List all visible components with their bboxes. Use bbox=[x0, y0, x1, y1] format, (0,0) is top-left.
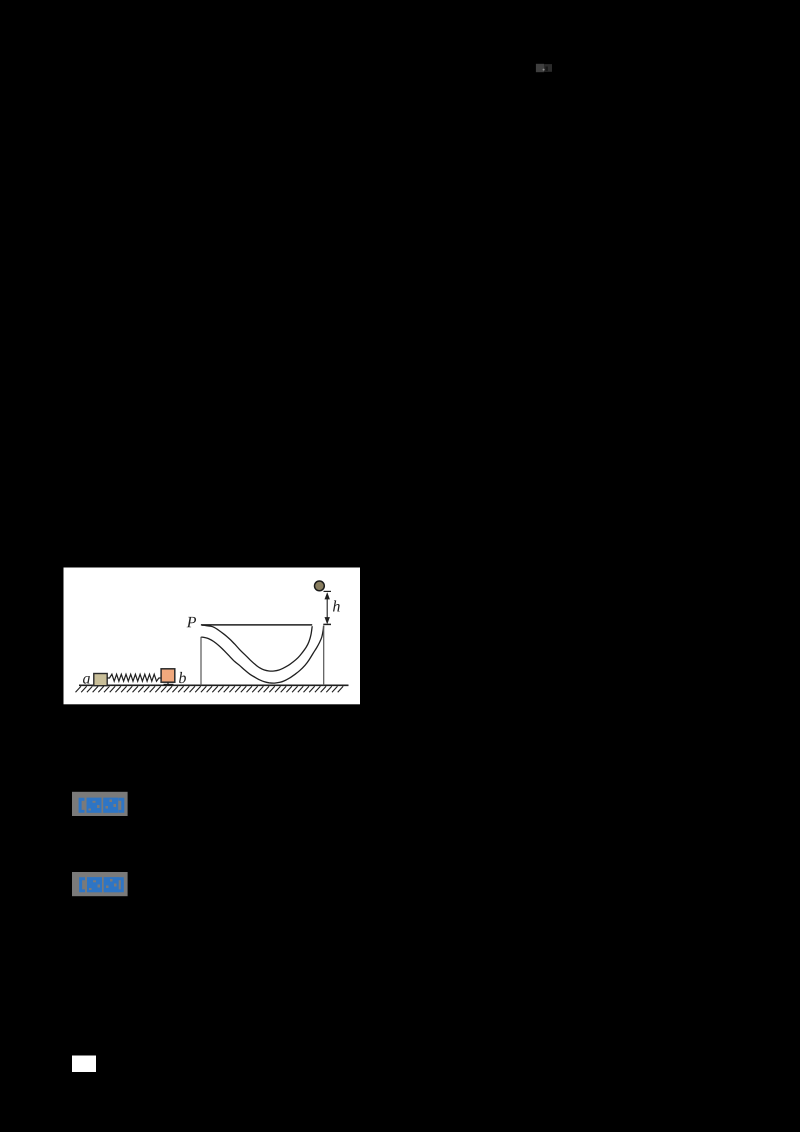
track top line bbox=[201, 624, 312, 626]
tick under ball bbox=[324, 590, 332, 592]
label b bbox=[179, 672, 186, 683]
label h bbox=[333, 600, 340, 611]
analysis tag box bbox=[72, 872, 128, 896]
pin under block b bbox=[167, 682, 169, 685]
track left wall bbox=[200, 637, 202, 686]
ball bbox=[315, 581, 325, 591]
block a bbox=[94, 674, 107, 686]
figure panel bbox=[64, 568, 361, 705]
lower tick bbox=[323, 623, 331, 625]
answer tag box bbox=[72, 792, 128, 816]
spring bbox=[108, 674, 161, 681]
ground bbox=[76, 685, 349, 692]
dimension arrow h bbox=[325, 592, 330, 624]
top badge icon bbox=[536, 64, 552, 72]
track upper curve bbox=[202, 625, 312, 671]
block b bbox=[161, 669, 175, 682]
label a bbox=[83, 676, 90, 684]
track right wall bbox=[323, 626, 325, 686]
track lower curve bbox=[201, 626, 323, 683]
bottom white rectangle bbox=[72, 1056, 96, 1073]
label P bbox=[187, 617, 196, 627]
